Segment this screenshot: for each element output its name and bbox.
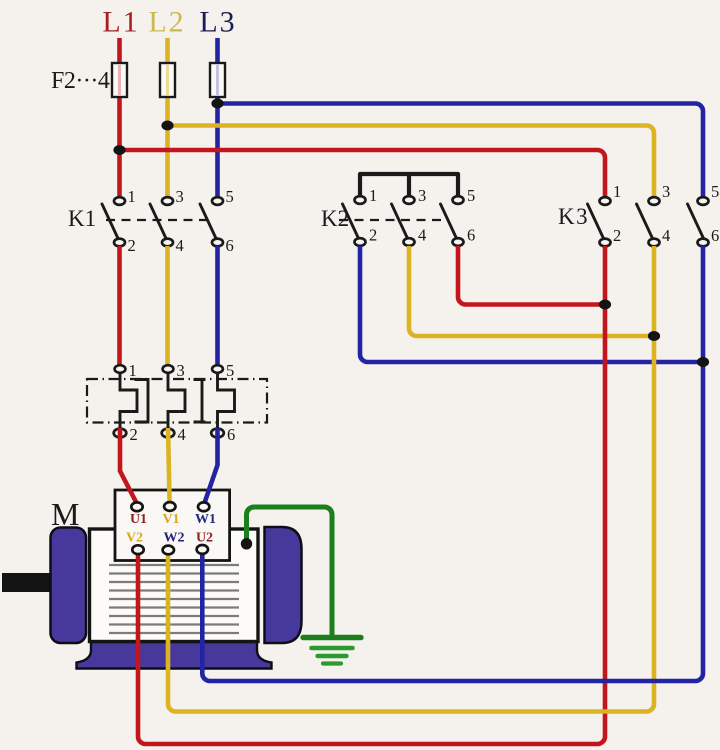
wire protective earth (green) from motor frame to ground — [247, 507, 333, 636]
fuse F2 (L1 phase) — [112, 63, 127, 97]
svg-text:6: 6 — [711, 226, 719, 245]
wire K2 pin 6 to node A (red delta feed) — [458, 246, 602, 305]
K2 pin 1 terminal — [355, 196, 366, 204]
wire K1 pin 2 to overload F1 pin 1 (L1 red) — [117, 246, 122, 366]
svg-text:2: 2 — [130, 425, 138, 444]
K1 pin 2 terminal — [114, 239, 125, 247]
K3 pole 1-2 contact arm — [588, 204, 605, 240]
node L3 tap junction — [211, 99, 223, 109]
svg-text:K3: K3 — [558, 204, 589, 229]
node L2 tap junction — [161, 121, 173, 131]
K2 mechanical link (dashed) — [339, 219, 449, 221]
motor M body — [2, 496, 302, 669]
wire motor U2 to K3 pin 6 (blue return) — [202, 246, 703, 681]
K2 pin 3 terminal — [404, 196, 415, 204]
motor terminal V2 — [132, 545, 143, 554]
wire K2 pin 4 to node C (yellow delta feed) — [409, 246, 651, 336]
node C junction (yellow, K2-4 / K3-4) — [648, 331, 660, 341]
K1 pin 1 terminal — [114, 197, 125, 205]
F1 pin 2 terminal — [114, 429, 127, 438]
F1 pin 1 terminal — [115, 365, 126, 373]
K2 star shorting bar — [360, 174, 458, 196]
fuse F3 (L2 phase) — [160, 63, 175, 97]
wire F1 pin 4 to motor terminal V1 — [168, 428, 170, 504]
svg-text:5: 5 — [226, 361, 234, 380]
F1 heater element pole 3 — [218, 373, 235, 429]
motor terminal W1 — [198, 502, 209, 511]
svg-text:6: 6 — [227, 425, 235, 444]
svg-text:U1: U1 — [130, 512, 147, 527]
svg-text:1: 1 — [613, 182, 621, 201]
wire L1 vertical from label through fuse to K1 pin 1 — [117, 38, 122, 196]
node A junction (red, K2-6 / K3-2) — [599, 300, 611, 310]
K2 pole 1-2 contact arm — [343, 204, 360, 240]
motor terminal U2 — [197, 545, 208, 554]
svg-text:3: 3 — [176, 187, 184, 206]
motor cooling fins — [109, 565, 239, 633]
contactor K3 (delta) — [558, 182, 719, 246]
svg-text:1: 1 — [129, 361, 137, 380]
node L1 tap junction — [113, 145, 125, 155]
K3 pole 3-4 contact arm — [637, 204, 654, 240]
node B junction (blue, K2-2 / K3-6) — [697, 357, 709, 367]
contactor K1 — [68, 187, 234, 255]
K3 pole 5-6 contact arm — [688, 204, 705, 240]
svg-text:2: 2 — [369, 226, 377, 245]
svg-text:3: 3 — [418, 186, 426, 205]
svg-text:4: 4 — [662, 226, 670, 245]
svg-text:2: 2 — [128, 236, 136, 255]
K3 pin 4 terminal — [649, 239, 660, 247]
motor terminal W2 — [163, 546, 174, 555]
K3 pin 1 terminal — [600, 197, 611, 205]
K1 pin 6 terminal — [212, 239, 223, 247]
motor base pedestal — [77, 642, 272, 669]
motor stator frame — [90, 529, 259, 642]
svg-text:1: 1 — [369, 186, 377, 205]
K2 pin 4 terminal — [404, 238, 415, 246]
K1 pole 5-6 contact arm — [200, 204, 217, 240]
svg-text:4: 4 — [176, 236, 184, 255]
svg-text:4: 4 — [178, 425, 186, 444]
wire motor V2 to K3 pin 2 (red return) — [138, 246, 605, 744]
svg-text:M: M — [51, 496, 79, 532]
wire F1 pin 6 to motor terminal W1 — [204, 428, 217, 504]
svg-text:W2: W2 — [164, 531, 185, 546]
F1 pin 6 terminal — [211, 429, 224, 438]
K2 pin 5 terminal — [453, 196, 464, 204]
K3 pin 2 terminal — [600, 239, 611, 247]
K1 pole 3-4 contact arm — [150, 204, 167, 240]
svg-text:V2: V2 — [126, 531, 143, 546]
svg-text:V1: V1 — [162, 512, 179, 527]
wire L2 branch to K3 pin 3 — [168, 126, 655, 198]
wire L3 vertical from label through fuse to K1 pin 5 — [215, 38, 220, 196]
F1 enclosure (dash-dot box) — [87, 379, 267, 423]
svg-text:3: 3 — [662, 182, 670, 201]
wire K1 pin 6 to overload F1 pin 5 (L3 blue) — [215, 246, 220, 366]
wire F1 pin 2 to motor terminal U1 — [120, 428, 137, 504]
K1 pole 1-2 contact arm — [102, 204, 119, 240]
K2 pin 6 terminal — [453, 238, 464, 246]
svg-text:L1: L1 — [102, 6, 139, 39]
F1 pin 4 terminal — [162, 429, 175, 438]
motor terminal V1 — [164, 502, 175, 511]
F1 heater element pole 2 — [168, 373, 185, 429]
svg-text:5: 5 — [226, 187, 234, 206]
wire K1 pin 4 to overload F1 pin 3 (L2 yellow) — [165, 246, 170, 366]
K1 pin 3 terminal — [162, 197, 173, 205]
K1 pin 5 terminal — [212, 197, 223, 205]
wire L3 branch to K3 pin 5 — [218, 104, 704, 198]
motor left end cap — [51, 528, 87, 644]
F1 heater element pole 1 — [120, 373, 137, 429]
F1 pin 3 terminal — [163, 365, 174, 373]
contactor K2 (star) — [321, 174, 475, 246]
thermal overload relay F1 — [87, 361, 267, 444]
K2 pin 2 terminal — [355, 238, 366, 246]
motor terminal box — [115, 490, 230, 561]
K1 mechanical link (dashed) — [106, 219, 213, 221]
motor earth terminal node — [241, 538, 252, 549]
svg-text:W1: W1 — [195, 512, 216, 527]
svg-text:L3: L3 — [199, 6, 236, 39]
svg-text:K1: K1 — [68, 206, 96, 231]
ground symbol — [303, 638, 361, 664]
wire K2 pin 2 to node B (blue delta feed) — [360, 246, 702, 362]
F1 pole 2 divider bracket — [194, 380, 206, 423]
svg-text:2: 2 — [613, 226, 621, 245]
svg-text:L2: L2 — [148, 6, 185, 39]
svg-text:5: 5 — [467, 186, 475, 205]
wire L2 vertical from label through fuse to K1 pin 3 — [165, 38, 170, 196]
wire motor W2 to K3 pin 4 (yellow return) — [168, 246, 654, 712]
svg-text:4: 4 — [418, 226, 426, 245]
svg-text:3: 3 — [177, 361, 185, 380]
motor terminal U1 — [131, 502, 142, 511]
motor right end cap — [265, 527, 302, 643]
svg-text:U2: U2 — [196, 531, 213, 546]
F1 pin 5 terminal — [212, 365, 223, 373]
svg-text:1: 1 — [128, 187, 136, 206]
svg-text:F2···4: F2···4 — [51, 68, 110, 94]
wire L1 branch to K3 pin 1 — [120, 150, 606, 197]
K3 pin 3 terminal — [649, 197, 660, 205]
svg-text:6: 6 — [226, 236, 234, 255]
K3 pin 5 terminal — [698, 197, 709, 205]
svg-text:6: 6 — [467, 226, 475, 245]
F1 pole 1 divider bracket — [135, 380, 149, 423]
fuse F4 (L3 phase) — [210, 63, 225, 97]
svg-text:5: 5 — [711, 182, 719, 201]
K2 pole 5-6 contact arm — [441, 204, 458, 240]
K1 pin 4 terminal — [162, 239, 173, 247]
K3 pin 6 terminal — [698, 239, 709, 247]
K2 pole 3-4 contact arm — [392, 204, 409, 240]
motor shaft — [2, 573, 51, 592]
